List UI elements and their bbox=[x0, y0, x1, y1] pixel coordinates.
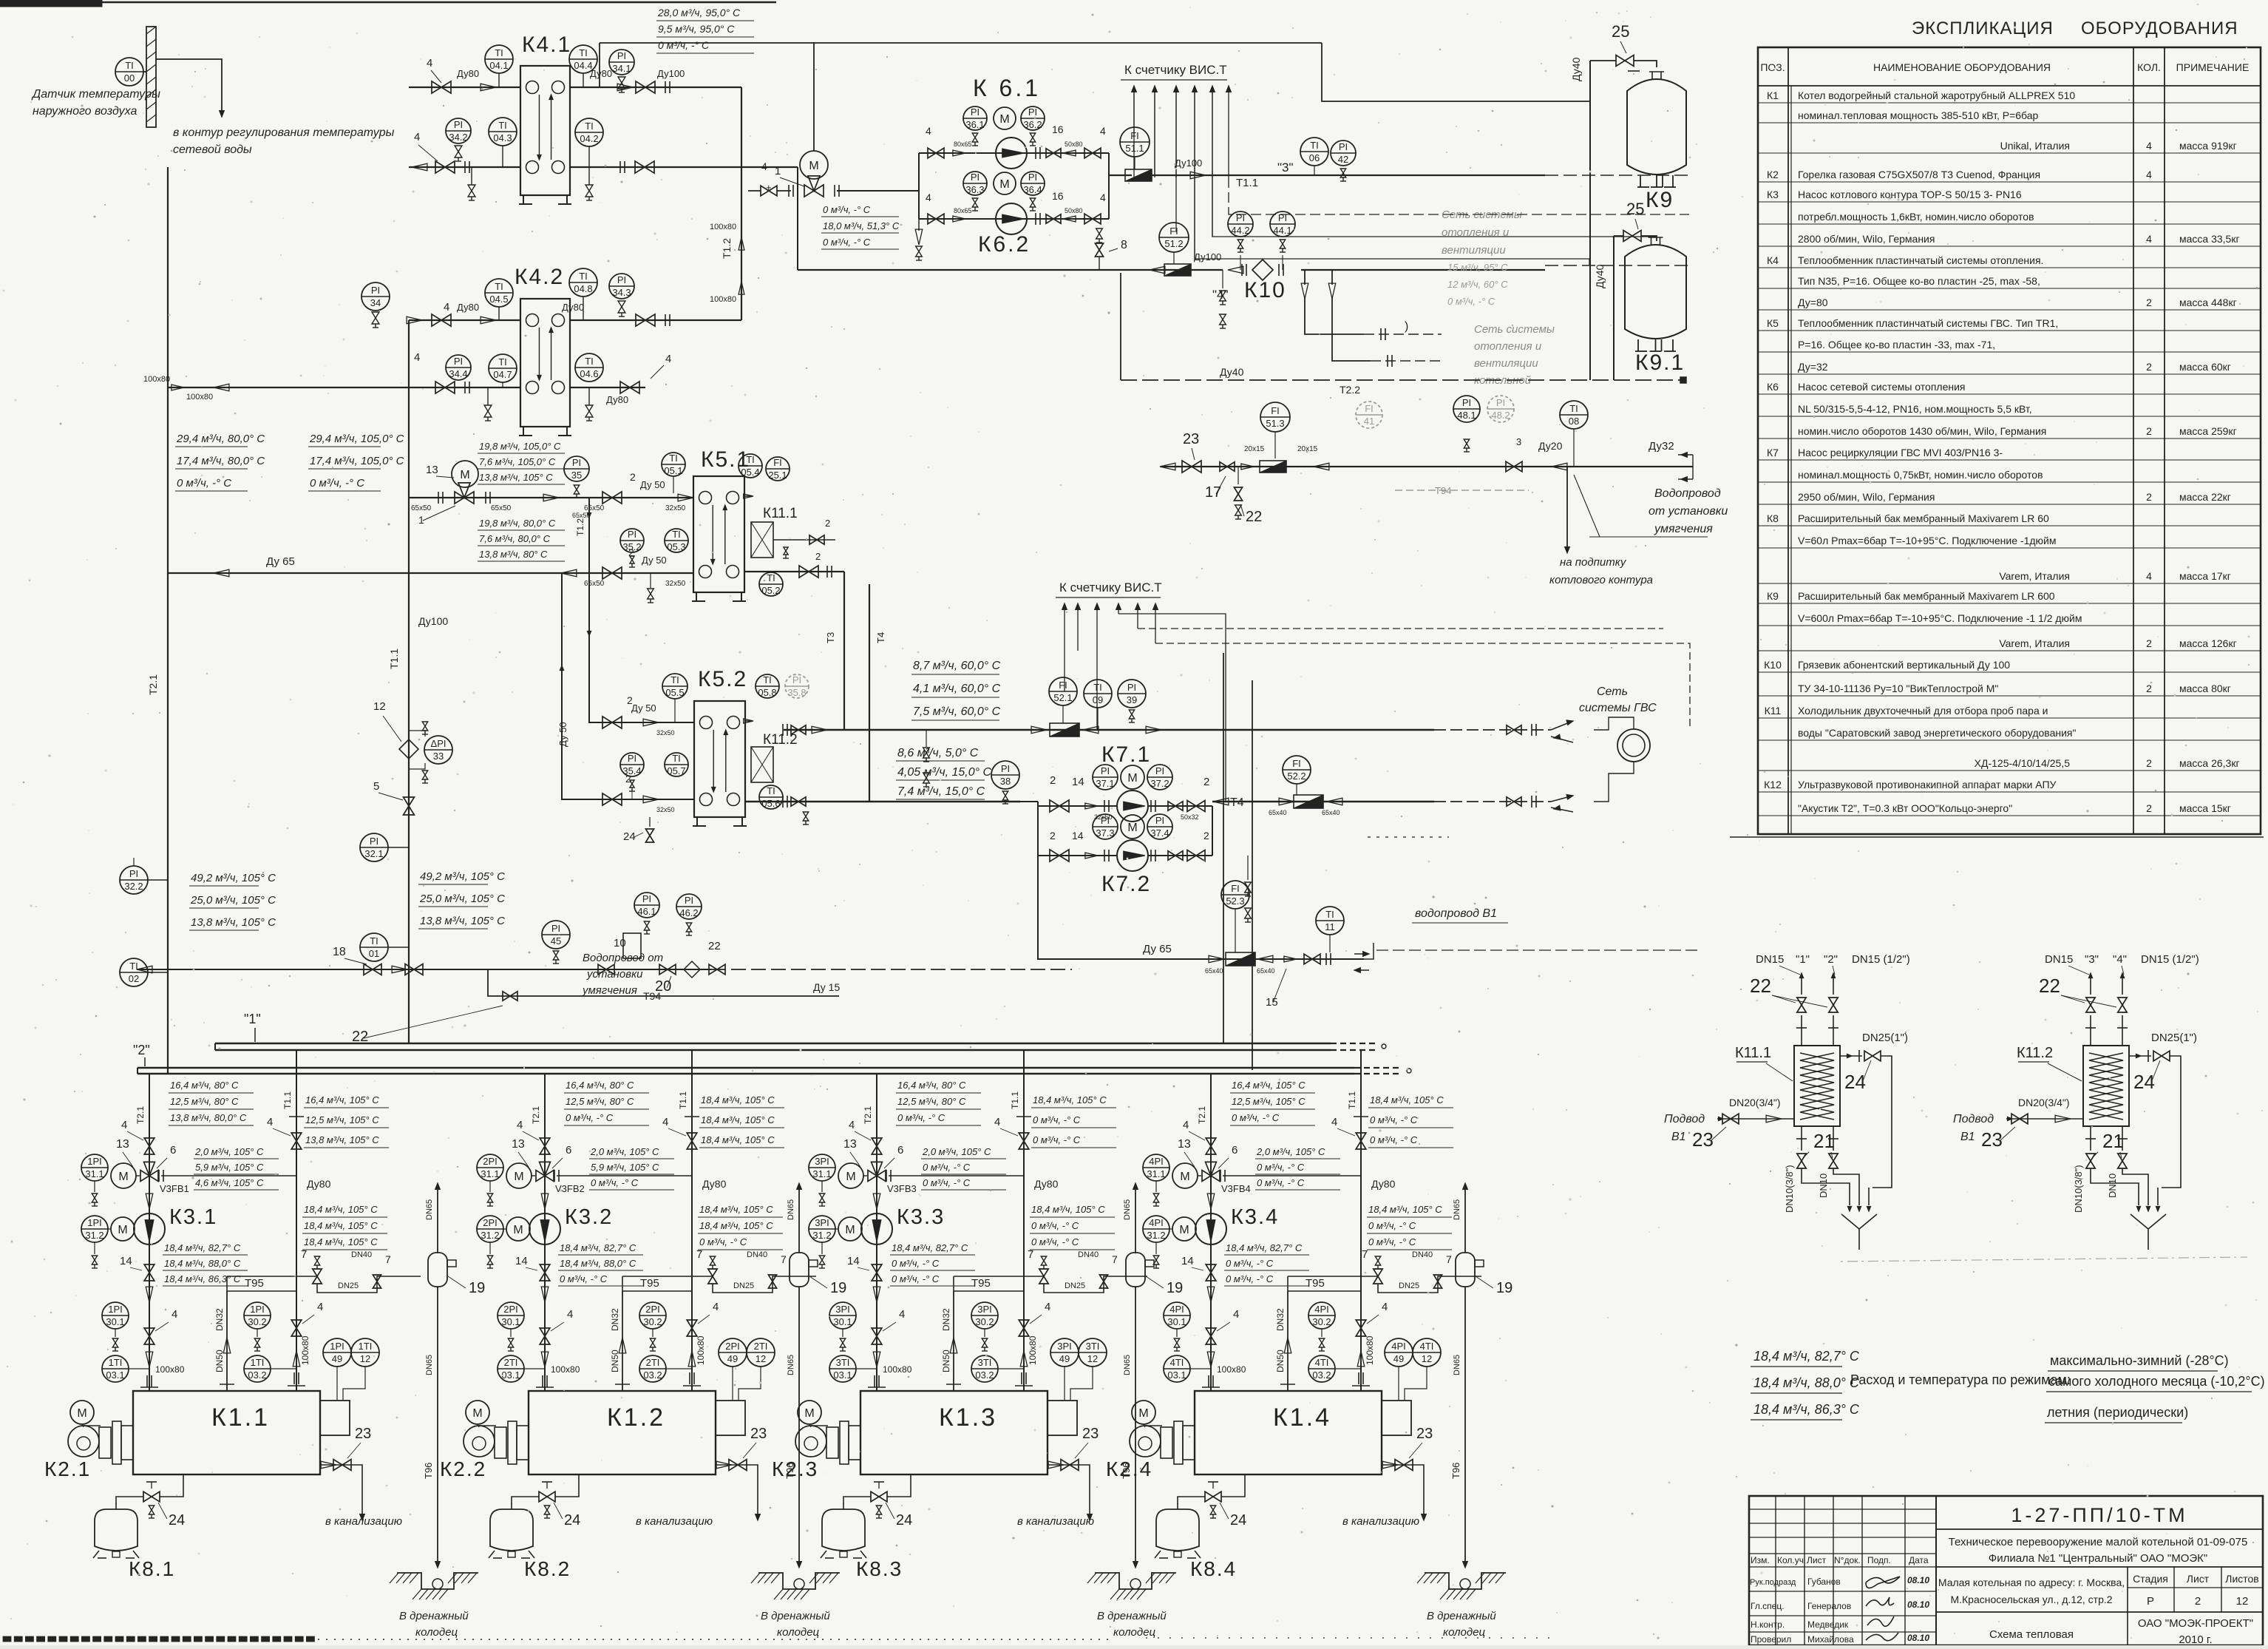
svg-text:19: 19 bbox=[1167, 1280, 1183, 1296]
svg-text:К4.1: К4.1 bbox=[522, 33, 571, 57]
instrument PI 36.2 bbox=[1021, 106, 1045, 130]
svg-text:Т94: Т94 bbox=[1435, 485, 1451, 496]
svg-text:PI: PI bbox=[685, 895, 693, 906]
svg-text:0 м³/ч, -° С: 0 м³/ч, -° С bbox=[560, 1273, 608, 1284]
svg-text:18,4 м³/ч, 105° С: 18,4 м³/ч, 105° С bbox=[304, 1236, 378, 1247]
svg-text:PI: PI bbox=[1236, 212, 1245, 223]
instrument PI 44.2 bbox=[1228, 211, 1253, 237]
svg-text:36.1: 36.1 bbox=[965, 119, 984, 130]
svg-text:04.3: 04.3 bbox=[493, 132, 512, 143]
svg-text:Лист: Лист bbox=[2187, 1573, 2210, 1585]
svg-text:3PI: 3PI bbox=[815, 1156, 829, 1167]
svg-text:12,5 м³/ч, 80° С: 12,5 м³/ч, 80° С bbox=[897, 1096, 966, 1107]
svg-text:100х80: 100х80 bbox=[1217, 1364, 1246, 1375]
svg-text:4: 4 bbox=[1100, 125, 1106, 137]
svg-text:2: 2 bbox=[1203, 830, 1209, 842]
svg-text:Т2.1: Т2.1 bbox=[531, 1106, 541, 1124]
wire Du40 riser to K9.1 bbox=[1613, 236, 1615, 380]
valve on K4.2 return right bbox=[620, 382, 630, 393]
svg-text:08.10: 08.10 bbox=[1907, 1599, 1929, 1610]
svg-text:TI: TI bbox=[495, 47, 503, 58]
svg-text:0 м³/ч, -° С: 0 м³/ч, -° С bbox=[897, 1112, 945, 1123]
wires to VIS.T upper bbox=[1133, 89, 1135, 177]
outlet DN25 valve detail K11.1 bbox=[1840, 1055, 1862, 1057]
equipment table rows bbox=[1758, 102, 2261, 104]
svg-text:Насос котлового контура TOP-S: Насос котлового контура TOP-S 50/15 3- P… bbox=[1798, 189, 2022, 200]
svg-text:DN15: DN15 bbox=[1756, 953, 1784, 966]
reducer under 3way col 1 bbox=[146, 1193, 153, 1209]
wire drains to funnel detail K11.1 bbox=[1802, 1168, 1850, 1205]
svg-text:Ду 50: Ду 50 bbox=[642, 555, 667, 566]
svg-text:DN65: DN65 bbox=[1123, 1199, 1132, 1220]
svg-text:2950 об/мин,: 2950 об/мин, Wilo, Германия bbox=[1798, 491, 1935, 503]
svg-text:100х80: 100х80 bbox=[551, 1364, 580, 1375]
svg-text:Ду100: Ду100 bbox=[1175, 158, 1202, 169]
wire Du40 riser to K9 bbox=[1589, 61, 1591, 380]
svg-text:Ду 50: Ду 50 bbox=[631, 702, 656, 714]
svg-text:3: 3 bbox=[1516, 436, 1521, 447]
svg-text:Дата: Дата bbox=[1909, 1555, 1929, 1565]
svg-text:21: 21 bbox=[2102, 1130, 2124, 1152]
arrows at B1 line end bbox=[1363, 952, 1369, 957]
svg-text:52.1: 52.1 bbox=[1053, 692, 1072, 703]
instrument 1TI 03.2 col 1 bbox=[244, 1355, 271, 1382]
outside air temperature sensor wall (hatched) bbox=[146, 27, 156, 127]
motor of pump K3.2 bbox=[506, 1217, 530, 1241]
svg-text:0 м³/ч, -° С: 0 м³/ч, -° С bbox=[1226, 1273, 1274, 1284]
svg-text:масса 17кг: масса 17кг bbox=[2179, 570, 2231, 582]
svg-text:К9: К9 bbox=[1646, 188, 1674, 212]
svg-text:36.4: 36.4 bbox=[1023, 184, 1042, 195]
svg-text:на подпитку: на подпитку bbox=[1560, 556, 1627, 569]
wire T1.2 riser bbox=[741, 87, 742, 320]
svg-text:52.3: 52.3 bbox=[1226, 895, 1244, 907]
svg-text:M: M bbox=[118, 1171, 128, 1183]
heat exchanger K5.1 bbox=[693, 476, 744, 592]
svg-text:Изм.: Изм. bbox=[1751, 1555, 1770, 1565]
reducer 100x80 riser B col 3 bbox=[1020, 1351, 1028, 1367]
svg-text:25,0 м³/ч, 105° С: 25,0 м³/ч, 105° С bbox=[190, 894, 276, 907]
instrument PI 46.2 bbox=[676, 894, 702, 919]
svg-text:К7.2: К7.2 bbox=[1101, 872, 1151, 896]
svg-text:46.1: 46.1 bbox=[637, 906, 656, 917]
svg-text:Т94: Т94 bbox=[643, 990, 661, 1002]
svg-text:7: 7 bbox=[385, 1253, 391, 1265]
svg-text:Генералов: Генералов bbox=[1807, 1601, 1851, 1611]
svg-text:К6.2: К6.2 bbox=[978, 232, 1031, 257]
instrument 3PI 49 col 3 bbox=[1050, 1338, 1079, 1367]
valve 4 riser B col 2 bbox=[687, 1133, 697, 1141]
svg-text:65х40: 65х40 bbox=[1322, 809, 1340, 816]
svg-text:18,4 м³/ч, 82,7° С: 18,4 м³/ч, 82,7° С bbox=[892, 1242, 968, 1253]
svg-text:"4": "4" bbox=[1212, 288, 1229, 302]
svg-text:Ду=32: Ду=32 bbox=[1798, 361, 1828, 373]
valve on K4.1 return right bbox=[635, 161, 645, 173]
instrument 1PI 49 col 1 bbox=[323, 1338, 351, 1367]
svg-text:К8.3: К8.3 bbox=[856, 1557, 903, 1580]
flow meter T1.1 bbox=[1125, 169, 1152, 181]
svg-text:31.2: 31.2 bbox=[481, 1230, 499, 1241]
sample tank K8.1 bbox=[95, 1509, 137, 1551]
svg-text:Горелка газовая C75GX507/8 Т3: Горелка газовая C75GX507/8 Т3 Cuenod, Фр… bbox=[1798, 169, 2040, 180]
pump K3.4 bbox=[1195, 1213, 1226, 1245]
svg-text:4: 4 bbox=[1331, 1116, 1337, 1128]
svg-text:Ду32: Ду32 bbox=[1649, 440, 1674, 453]
svg-text:1: 1 bbox=[775, 165, 781, 177]
svg-text:2: 2 bbox=[2195, 1595, 2201, 1608]
instrument PI 35.2 bbox=[620, 529, 644, 552]
instrument TI 04.7 bbox=[489, 354, 517, 382]
valves on T94 left bbox=[364, 964, 373, 975]
pump K3.2 bbox=[529, 1213, 560, 1245]
svg-text:29,4 м³/ч, 105,0° С: 29,4 м³/ч, 105,0° С bbox=[309, 433, 404, 445]
wire vertical connecting K4.1 return to T2 bbox=[797, 167, 798, 270]
wire K4.1 return pipe bbox=[409, 166, 520, 168]
control box K1.4 bbox=[1382, 1401, 1411, 1435]
svg-text:4: 4 bbox=[517, 1119, 523, 1131]
svg-text:К4.2: К4.2 bbox=[515, 265, 564, 289]
svg-text:В1: В1 bbox=[1671, 1131, 1686, 1143]
instrument PI 34.2 bbox=[446, 118, 471, 143]
valve 4 riser A col 1 bbox=[144, 1138, 155, 1146]
svg-text:PI: PI bbox=[792, 674, 801, 685]
wire manifold 1 (supply) bbox=[215, 1043, 1331, 1045]
svg-text:4: 4 bbox=[2146, 140, 2152, 152]
svg-text:Схема тепловая: Схема тепловая bbox=[1989, 1628, 2074, 1641]
svg-text:05.8: 05.8 bbox=[758, 687, 776, 698]
svg-text:13: 13 bbox=[1178, 1138, 1191, 1151]
svg-text:4: 4 bbox=[1183, 1119, 1189, 1131]
svg-text:19: 19 bbox=[830, 1280, 846, 1296]
svg-text:36.3: 36.3 bbox=[965, 184, 984, 195]
wire T1.1 riser bbox=[408, 320, 410, 1043]
svg-text:0 м³/ч, -° С: 0 м³/ч, -° С bbox=[823, 204, 871, 215]
svg-text:18,4 м³/ч, 88,0° С: 18,4 м³/ч, 88,0° С bbox=[164, 1258, 241, 1269]
boiler K1.1 bbox=[133, 1391, 320, 1474]
svg-text:M: M bbox=[118, 1224, 127, 1236]
svg-text:03.2: 03.2 bbox=[975, 1369, 994, 1381]
title block main cells bbox=[1936, 1528, 2263, 1530]
wire DN pipe col 4 bbox=[1287, 1291, 1289, 1391]
svg-text:3TI: 3TI bbox=[836, 1357, 850, 1368]
svg-text:Т1.1: Т1.1 bbox=[388, 649, 400, 669]
wire T94 faint bbox=[1395, 490, 1529, 491]
svg-text:К8.4: К8.4 bbox=[1190, 1557, 1237, 1580]
drainage pit bbox=[758, 1573, 840, 1589]
reducer under 3way col 4 bbox=[1207, 1193, 1215, 1209]
wire bypass col 3 bbox=[889, 1175, 1024, 1176]
drainage pit bbox=[1425, 1573, 1506, 1589]
svg-text:14: 14 bbox=[1072, 776, 1084, 788]
svg-text:0 м³/ч, -° С: 0 м³/ч, -° С bbox=[1368, 1220, 1416, 1231]
svg-text:4: 4 bbox=[2146, 570, 2152, 582]
svg-text:масса 26,3кг: масса 26,3кг bbox=[2179, 757, 2240, 769]
valve 4 riser B lower col 1 bbox=[291, 1320, 302, 1328]
instrument TI 04.4 bbox=[569, 45, 597, 73]
svg-text:M: M bbox=[999, 113, 1009, 126]
valve 4 riser B col 3 bbox=[1019, 1133, 1029, 1141]
wire T96 drain line bbox=[437, 1287, 438, 1562]
svg-text:18: 18 bbox=[333, 946, 346, 958]
reducer 32x50 bbox=[1085, 803, 1098, 809]
wire outlet to funnel detail K11.1 bbox=[1868, 1188, 1870, 1205]
motor of burner K2.4 bbox=[1132, 1401, 1155, 1424]
svg-text:сетевой воды: сетевой воды bbox=[173, 143, 252, 156]
instrument PI 45 bbox=[542, 921, 570, 949]
svg-text:100х80: 100х80 bbox=[1028, 1335, 1038, 1365]
motor of 3-way valve col 4 bbox=[1172, 1163, 1198, 1188]
svg-text:Водопровод: Водопровод bbox=[1654, 487, 1721, 500]
svg-text:PI: PI bbox=[371, 285, 380, 296]
valves right branch2 bbox=[1035, 213, 1036, 225]
svg-text:TI: TI bbox=[767, 785, 775, 796]
svg-text:0 м³/ч, -° С: 0 м³/ч, -° С bbox=[1033, 1114, 1081, 1125]
svg-text:масса 80кг: масса 80кг bbox=[2179, 683, 2231, 694]
svg-text:51.1: 51.1 bbox=[1125, 143, 1144, 154]
wire DN40 jog col 1 bbox=[317, 1276, 421, 1293]
svg-text:К7: К7 bbox=[1767, 447, 1779, 458]
svg-text:4: 4 bbox=[899, 1308, 905, 1321]
svg-text:Т2.1: Т2.1 bbox=[863, 1106, 873, 1124]
equipment table frame bbox=[1758, 47, 2261, 834]
wire K5.1 return line bbox=[168, 572, 693, 574]
instrument 3TI 03.1 col 3 bbox=[829, 1355, 856, 1382]
instrument TI 06 bbox=[1300, 138, 1328, 166]
svg-text:2PI: 2PI bbox=[725, 1341, 740, 1352]
valve 2 on K5.1 return bbox=[602, 567, 612, 579]
flow meter on T3 bbox=[1031, 726, 1047, 734]
svg-text:Т2.1: Т2.1 bbox=[1197, 1106, 1207, 1124]
wire Du65 line to K5.1 bbox=[409, 497, 693, 498]
svg-text:ΔPI: ΔPI bbox=[431, 738, 447, 749]
svg-text:Малая котельная по адресу: г.: Малая котельная по адресу: г. Москва, bbox=[1938, 1577, 2125, 1588]
instrument TI 04.1 bbox=[485, 45, 513, 73]
svg-text:V3FB2: V3FB2 bbox=[555, 1183, 585, 1194]
svg-text:7,6 м³/ч, 105,0° С: 7,6 м³/ч, 105,0° С bbox=[479, 456, 556, 467]
valve on K4.1 return bbox=[435, 161, 445, 173]
svg-text:Гл.спец.: Гл.спец. bbox=[1751, 1601, 1785, 1611]
svg-text:Р: Р bbox=[2147, 1595, 2154, 1608]
instrument 4PI 30.1 col 4 bbox=[1164, 1302, 1190, 1329]
svg-text:25: 25 bbox=[1626, 200, 1644, 218]
svg-text:17,4 м³/ч, 105,0° С: 17,4 м³/ч, 105,0° С bbox=[310, 455, 404, 467]
instrument dPI 33 bbox=[424, 736, 452, 764]
valve 14 col 3 bbox=[872, 1264, 882, 1273]
reducer under 3way col 3 bbox=[873, 1193, 880, 1209]
svg-text:масса 259кг: масса 259кг bbox=[2179, 425, 2237, 437]
svg-text:DN32: DN32 bbox=[610, 1308, 620, 1331]
svg-text:32х50: 32х50 bbox=[656, 729, 675, 737]
svg-text:32х50: 32х50 bbox=[665, 504, 686, 512]
svg-text:2TI: 2TI bbox=[646, 1357, 660, 1368]
instrument FI 52.3 bbox=[1221, 881, 1249, 909]
svg-text:Подвод: Подвод bbox=[1664, 1113, 1705, 1125]
svg-text:0 м³/ч, -° С: 0 м³/ч, -° С bbox=[1257, 1177, 1305, 1188]
svg-text:2: 2 bbox=[2146, 361, 2152, 373]
svg-text:0 м³/ч, -° С: 0 м³/ч, -° С bbox=[1370, 1134, 1418, 1145]
svg-text:52.2: 52.2 bbox=[1287, 771, 1306, 782]
wire top border strip bbox=[0, 0, 102, 7]
svg-text:M: M bbox=[999, 178, 1009, 191]
svg-text:Подвод: Подвод bbox=[1953, 1113, 1994, 1125]
svg-text:7: 7 bbox=[1112, 1253, 1118, 1265]
svg-text:масса 22кг: масса 22кг bbox=[2179, 491, 2231, 503]
heat exchanger K4.1 bbox=[520, 66, 570, 195]
svg-text:DN10: DN10 bbox=[1818, 1174, 1829, 1198]
instrument PI 37.1 bbox=[1093, 765, 1118, 790]
svg-text:34.2: 34.2 bbox=[449, 132, 467, 143]
svg-text:системы ГВС: системы ГВС bbox=[1579, 702, 1657, 714]
wire bypass col 2 bbox=[557, 1175, 692, 1176]
wire T95 col 4 bbox=[1288, 1290, 1361, 1292]
outlet DN25 valve detail K11.2 bbox=[2129, 1055, 2151, 1057]
svg-text:Т1.2: Т1.2 bbox=[721, 238, 733, 259]
svg-text:31.1: 31.1 bbox=[85, 1168, 103, 1179]
svg-text:Т1.2: Т1.2 bbox=[575, 518, 585, 536]
svg-text:TI: TI bbox=[1310, 140, 1319, 151]
instrument PI 48.2 (faint) bbox=[1487, 396, 1514, 422]
three-way valve V3FB4 bbox=[1202, 1171, 1211, 1182]
svg-text:16: 16 bbox=[1052, 190, 1064, 202]
svg-text:Ду80: Ду80 bbox=[590, 68, 612, 79]
svg-text:К9.1: К9.1 bbox=[1635, 351, 1685, 375]
svg-text:30.2: 30.2 bbox=[1312, 1316, 1331, 1327]
svg-text:Ду80: Ду80 bbox=[606, 394, 628, 405]
svg-text:DN20(3/4"): DN20(3/4") bbox=[2018, 1097, 2070, 1108]
motor of burner K2.3 bbox=[798, 1401, 821, 1424]
svg-text:Расход и температура по режима: Расход и температура по режимам: bbox=[1850, 1372, 2071, 1387]
valve 24 col 2 bbox=[539, 1491, 547, 1502]
svg-text:12: 12 bbox=[360, 1353, 370, 1364]
svg-text:08.10: 08.10 bbox=[1907, 1575, 1929, 1585]
svg-text:номин.число оборотов 1430 об/м: номин.число оборотов 1430 об/мин, Wilo, … bbox=[1798, 425, 2046, 437]
reducer 100x80 riser B col 1 bbox=[293, 1351, 300, 1367]
svg-text:18,4 м³/ч, 105° С: 18,4 м³/ч, 105° С bbox=[304, 1204, 378, 1215]
svg-text:45: 45 bbox=[551, 935, 561, 947]
svg-text:100х80: 100х80 bbox=[696, 1335, 706, 1365]
reducer 100x80 col 1 bbox=[146, 1352, 153, 1367]
svg-text:05.7: 05.7 bbox=[667, 765, 685, 776]
wire T2 return line bbox=[798, 269, 1223, 271]
svg-text:M: M bbox=[1179, 1224, 1189, 1236]
svg-text:7: 7 bbox=[781, 1253, 787, 1265]
svg-text:8,7 м³/ч, 60,0° С: 8,7 м³/ч, 60,0° С bbox=[913, 660, 1001, 672]
check valve col 2 bbox=[541, 1287, 549, 1302]
motor of 3-way valve col 1 bbox=[111, 1163, 136, 1188]
svg-text:1PI: 1PI bbox=[87, 1156, 102, 1167]
instrument TI 09 bbox=[1084, 680, 1112, 708]
wire riser B column 1 bbox=[296, 1050, 297, 1391]
burner K2.2 bbox=[464, 1426, 495, 1457]
svg-text:M: M bbox=[1180, 1171, 1189, 1183]
svg-text:4: 4 bbox=[1233, 1308, 1239, 1321]
svg-text:Т4: Т4 bbox=[1230, 796, 1244, 809]
svg-text:19,8 м³/ч, 105,0° С: 19,8 м³/ч, 105,0° С bbox=[479, 441, 561, 452]
svg-text:Ду40: Ду40 bbox=[1220, 366, 1244, 378]
reducer 100x80 riser B col 4 bbox=[1357, 1351, 1365, 1367]
wire top dash line bbox=[600, 42, 1322, 44]
drain valve under K4.1 return left bbox=[471, 167, 472, 185]
instrument 4TI 12 col 4 bbox=[1413, 1338, 1441, 1367]
svg-text:M: M bbox=[513, 1224, 523, 1236]
svg-text:18,4 м³/ч, 105° С: 18,4 м³/ч, 105° С bbox=[701, 1114, 775, 1125]
svg-text:18,4 м³/ч, 82,7° С: 18,4 м³/ч, 82,7° С bbox=[1753, 1349, 1860, 1364]
instrument 1PI 30.2 col 1 bbox=[244, 1302, 271, 1329]
valve 24 col 1 bbox=[143, 1491, 152, 1502]
drain valves 21 detail K11.1 bbox=[1801, 1126, 1802, 1151]
svg-text:13,8 м³/ч, 80° С: 13,8 м³/ч, 80° С bbox=[479, 549, 548, 560]
pump K7.1 circle bbox=[1117, 790, 1148, 822]
svg-text:2: 2 bbox=[2146, 425, 2152, 437]
drain valve under T2 line bbox=[1222, 270, 1223, 288]
instrument 2PI 31.1 col 2 bbox=[477, 1154, 503, 1181]
svg-text:К счетчику ВИС.Т: К счетчику ВИС.Т bbox=[1124, 63, 1227, 77]
svg-text:30.2: 30.2 bbox=[643, 1316, 662, 1327]
valve 4 branch1 bbox=[928, 148, 936, 158]
instrument TI 08 bbox=[1560, 401, 1588, 429]
svg-text:22: 22 bbox=[2039, 975, 2060, 997]
svg-text:2: 2 bbox=[1050, 774, 1056, 787]
valves at left of T3 line bbox=[791, 725, 798, 734]
svg-text:К1.2: К1.2 bbox=[607, 1403, 665, 1432]
motor K7.2 bbox=[1121, 815, 1144, 839]
svg-text:65х50: 65х50 bbox=[572, 512, 591, 519]
valve 4 on K4.1 supply bbox=[432, 81, 441, 93]
svg-text:PI: PI bbox=[1339, 141, 1348, 152]
svg-text:PI: PI bbox=[1028, 172, 1037, 183]
instrument 3PI 31.2 col 3 bbox=[809, 1216, 835, 1242]
svg-text:В1: В1 bbox=[1960, 1131, 1975, 1143]
svg-text:в канализацию: в канализацию bbox=[1342, 1515, 1419, 1528]
valve 4 lower riser A col 3 bbox=[872, 1328, 882, 1336]
motor mixing valve K6 inlet bbox=[800, 151, 828, 179]
motor K7.1 bbox=[1121, 765, 1144, 789]
svg-text:котлового контура: котлового контура bbox=[1549, 574, 1653, 586]
svg-text:Т95: Т95 bbox=[971, 1277, 991, 1290]
instrument PI 42 bbox=[1331, 140, 1356, 166]
wire T95 col 2 bbox=[622, 1290, 692, 1292]
svg-text:TI: TI bbox=[125, 60, 134, 71]
valve 25 at K9.1 bbox=[1623, 231, 1632, 242]
svg-text:Расширительный бак мембранный: Расширительный бак мембранный Maxivarem … bbox=[1798, 512, 2049, 524]
svg-text:"3": "3" bbox=[1277, 160, 1294, 175]
svg-text:водопровод В1: водопровод В1 bbox=[1415, 907, 1497, 920]
motor of burner K2.1 bbox=[70, 1401, 94, 1424]
detail cooler K11.2 vessel bbox=[2083, 1046, 2129, 1126]
wire DN pipe col 1 bbox=[226, 1291, 228, 1391]
wire signal corners to right bbox=[1155, 643, 1690, 730]
svg-text:2PI: 2PI bbox=[483, 1156, 498, 1167]
svg-text:32х50: 32х50 bbox=[665, 580, 686, 588]
svg-text:НАИМЕНОВАНИЕ ОБОРУДОВАНИЯ: НАИМЕНОВАНИЕ ОБОРУДОВАНИЯ bbox=[1873, 61, 2051, 73]
svg-text:наружного воздуха: наружного воздуха bbox=[33, 105, 137, 118]
valve 2 near K11.1 bbox=[773, 539, 835, 541]
svg-text:К4: К4 bbox=[1767, 254, 1779, 266]
instrument 3TI 12 col 3 bbox=[1079, 1338, 1107, 1367]
valves on B1 line bbox=[1284, 956, 1297, 962]
instrument PI 39 bbox=[1118, 680, 1146, 708]
svg-text:Ду20: Ду20 bbox=[1538, 440, 1563, 452]
valves right of K7.1 bbox=[1150, 800, 1152, 812]
svg-text:К11.1: К11.1 bbox=[1735, 1045, 1771, 1061]
svg-text:PI: PI bbox=[1155, 815, 1164, 826]
svg-text:18,4 м³/ч, 88,0° С: 18,4 м³/ч, 88,0° С bbox=[1753, 1375, 1860, 1390]
wire DN40 jog col 3 bbox=[1044, 1276, 1147, 1293]
svg-text:65х40: 65х40 bbox=[1269, 809, 1287, 816]
drain valve under K4.1 return right bbox=[588, 167, 590, 185]
svg-text:13: 13 bbox=[843, 1138, 857, 1151]
three-way valve V3FB2 bbox=[536, 1171, 545, 1182]
